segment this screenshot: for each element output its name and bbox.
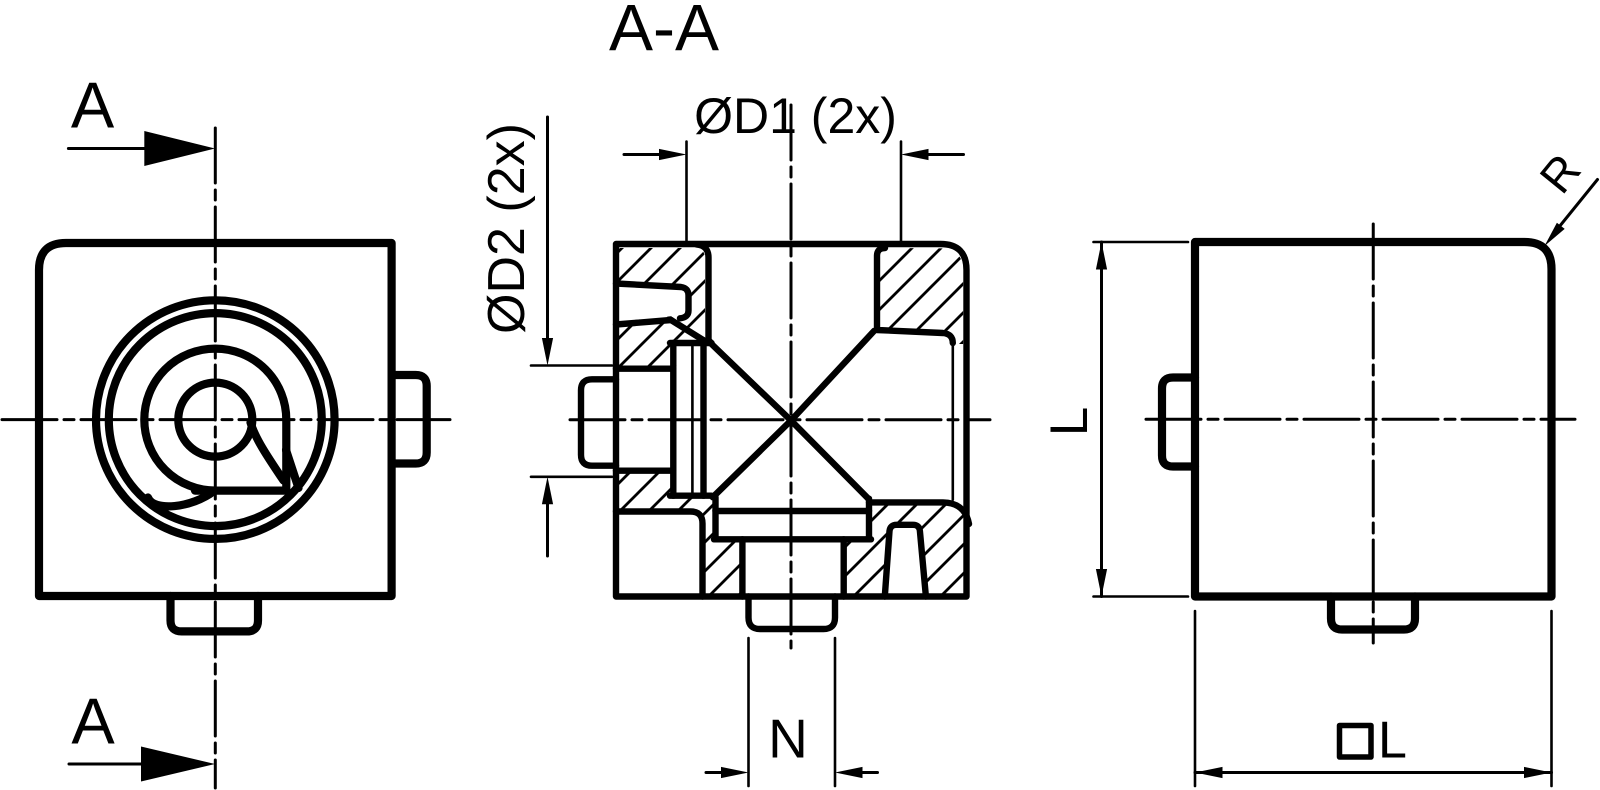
section hole bottom edge — [616, 468, 673, 474]
right view left tab — [1162, 378, 1195, 467]
section bottom plug narrow right edge — [841, 539, 847, 596]
left view cavity corner vertical line — [282, 420, 290, 491]
section top-right hatch boundary — [877, 248, 953, 343]
left view horizontal centerline — [2, 418, 450, 421]
section bottom tab — [749, 597, 836, 630]
section bottom plug top edge — [716, 508, 870, 514]
left view leaf arc — [148, 491, 214, 506]
section vertical centerline — [790, 105, 793, 648]
section arrow bottom — [69, 763, 150, 766]
section bottom-right hatch top boundary — [869, 502, 969, 524]
left view outer circle — [96, 300, 335, 539]
section top-left inner wall — [697, 244, 712, 343]
section column bottom edge — [670, 493, 712, 499]
right view bottom tab — [1331, 597, 1415, 630]
dimension square-L extension lines — [1194, 611, 1197, 786]
section X arm bottom-right — [791, 421, 868, 499]
svg-text:L: L — [1040, 407, 1099, 436]
section body outline — [616, 244, 967, 597]
section left boss tab — [581, 379, 616, 465]
section bottom plug left edge — [712, 497, 718, 539]
dimension R leader — [1557, 180, 1598, 230]
hatch top-right region — [877, 248, 963, 344]
section cone diagonal — [671, 320, 706, 342]
left view thread circle arc — [144, 349, 286, 491]
left view second circle — [109, 313, 322, 526]
left view bottom tab — [171, 596, 259, 631]
section top-left notch pocket — [616, 284, 689, 319]
right view vertical centerline — [1372, 224, 1375, 643]
section X arm bottom-left — [713, 421, 791, 498]
svg-text:A-A: A-A — [609, 0, 719, 65]
hatch bottom-left region — [616, 471, 742, 597]
section N-slot trapezoid pocket — [885, 525, 926, 597]
hatch bottom-right region — [844, 502, 969, 596]
left view cavity corner horizontal line — [195, 487, 286, 495]
left view inner ramp curve — [251, 423, 284, 481]
dimension square-L label — [1340, 712, 1407, 770]
dimension D2 extension lines — [531, 364, 612, 367]
section arrow top — [68, 147, 150, 150]
svg-text:A: A — [71, 69, 115, 142]
dimension L line and arrows — [1100, 242, 1103, 597]
right view horizontal centerline — [1146, 418, 1575, 421]
left view cavity corner bevel — [286, 450, 299, 488]
section R tangent thin line — [951, 338, 954, 500]
dimension D1 extension lines — [685, 142, 688, 244]
section notch bottom edge — [616, 320, 671, 325]
section column right edge — [700, 343, 706, 496]
left view small hole circle — [178, 383, 252, 457]
section bottom plug bottom edge — [714, 536, 871, 542]
right view body outline — [1195, 242, 1552, 597]
section horizontal centerline — [570, 418, 990, 421]
dimension square-L line and arrows — [1195, 771, 1552, 774]
dimension N line and arrows — [706, 771, 721, 774]
svg-text:A: A — [71, 685, 115, 758]
dimension D1 line and arrows — [624, 153, 660, 156]
section X arm top-right — [791, 331, 874, 421]
svg-text:ØD2 (2x): ØD2 (2x) — [478, 123, 536, 334]
dimension D2 line and arrows — [546, 117, 549, 338]
dimension L extension lines — [1094, 241, 1189, 244]
svg-text:L: L — [1378, 712, 1407, 770]
hatch top-left region — [619, 248, 705, 366]
left view body outline — [39, 243, 392, 596]
left view right tab — [392, 375, 427, 464]
section bottom plug narrow left edge — [739, 539, 745, 596]
section column left edge — [670, 343, 676, 496]
section X arm top-left — [712, 344, 792, 421]
left view vertical centerline — [214, 128, 217, 788]
svg-text:R: R — [1529, 144, 1590, 203]
svg-text:ØD1 (2x): ØD1 (2x) — [694, 88, 897, 144]
section column top edge — [670, 340, 712, 346]
dimension N extension lines — [747, 638, 750, 786]
section hole top edge — [616, 366, 673, 372]
section column thin line — [691, 343, 694, 496]
section bottom plug right edge — [866, 499, 872, 540]
section bottom-left pocket — [616, 512, 703, 597]
svg-text:N: N — [768, 708, 808, 770]
